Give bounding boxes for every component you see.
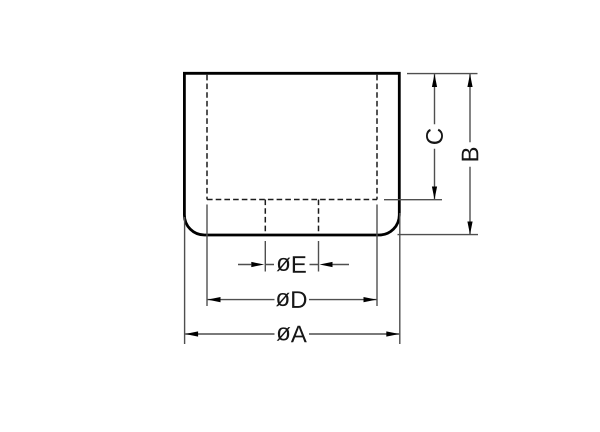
label ØE	[277, 256, 306, 273]
dimension B line	[469, 74, 471, 235]
ØA left arrow	[185, 331, 198, 336]
C top arrow	[432, 74, 437, 87]
label ØA	[277, 326, 307, 343]
dimension ØE leaders	[238, 264, 349, 266]
ØE left arrow (points right)	[251, 262, 264, 267]
B top arrow	[467, 74, 472, 87]
cap body outline	[184, 73, 399, 235]
dimension C line	[434, 74, 436, 200]
hidden small bore verticals	[265, 200, 318, 234]
extension line at inner depth (for C bottom)	[384, 199, 442, 201]
extension lines for ØD	[207, 205, 377, 307]
label B	[462, 148, 479, 161]
ØD right arrow	[364, 297, 377, 302]
label C	[426, 129, 443, 144]
hidden inner bore (dashed rectangle)	[207, 75, 377, 200]
dimension ØD line	[208, 299, 377, 301]
C bottom arrow	[432, 187, 437, 200]
extension lines for ØE	[265, 241, 318, 272]
ØE right arrow (points left)	[320, 262, 333, 267]
ØD left arrow	[208, 297, 221, 302]
B bottom arrow	[467, 222, 472, 235]
dimension ØA line	[185, 333, 399, 335]
label ØD	[276, 291, 306, 308]
ØA right arrow	[386, 331, 399, 336]
extension line top (for C and B)	[407, 73, 478, 75]
extension line at cap bottom (for B bottom)	[398, 234, 479, 236]
extension lines for ØA	[185, 213, 400, 344]
